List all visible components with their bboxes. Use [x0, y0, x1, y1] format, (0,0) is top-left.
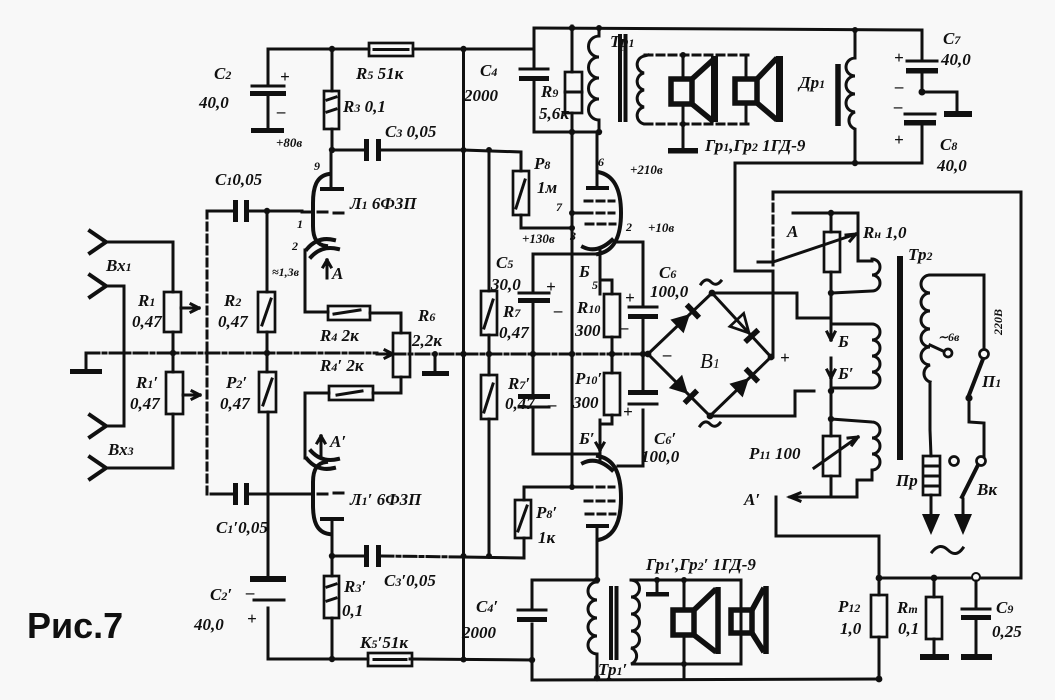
node Rn bottom	[828, 290, 834, 296]
node Tr1' primary bottom	[594, 675, 600, 681]
node R3' top	[329, 553, 335, 559]
svg-text:С4′: С4′	[476, 597, 498, 616]
wire grid feed y150	[464, 150, 522, 171]
diode V1 top-left	[670, 305, 699, 334]
svg-text:2: 2	[625, 220, 632, 234]
svg-text:С3 0,05: С3 0,05	[385, 122, 437, 141]
svg-text:40,0: 40,0	[936, 156, 967, 175]
svg-text:6: 6	[598, 155, 604, 169]
node bus-R13	[931, 575, 938, 582]
pentode U4 (output 6Ф3П lower)	[572, 410, 643, 580]
resistor R4	[305, 306, 370, 345]
svg-text:–: –	[894, 77, 904, 96]
input Bx3	[90, 415, 134, 479]
capacitor C2	[198, 49, 290, 133]
node R1 center	[170, 350, 176, 356]
svg-text:С1′0,05: С1′0,05	[216, 518, 268, 537]
pentode U3 (output 6Ф3П)	[556, 132, 643, 306]
node box bottom to bus2	[683, 664, 686, 679]
node C7-C8	[919, 89, 926, 96]
resistor R2	[218, 211, 275, 332]
svg-text:R3 0,1: R3 0,1	[342, 97, 386, 116]
svg-text:–: –	[553, 301, 563, 320]
transformer Tr1' secondary	[631, 580, 644, 664]
resistor R13	[896, 578, 942, 654]
svg-text:R5 51к: R5 51к	[355, 64, 404, 83]
svg-text:100,0: 100,0	[641, 447, 680, 466]
svg-text:300: 300	[574, 321, 601, 340]
svg-text:≈1,3в: ≈1,3в	[272, 265, 300, 279]
svg-text:Р2′: Р2′	[225, 373, 247, 392]
wire R4 to R6	[370, 313, 401, 333]
svg-text:40,0: 40,0	[193, 615, 224, 634]
svg-text:R3′: R3′	[343, 577, 366, 596]
svg-text:–: –	[893, 97, 903, 116]
node R12 bus2	[876, 676, 883, 683]
capacitor C1'	[211, 483, 268, 537]
svg-text:С10,05: С10,05	[215, 170, 263, 189]
svg-text:+: +	[280, 67, 290, 86]
choke Dr1	[797, 27, 858, 163]
wire bus1 bottom	[268, 659, 532, 660]
node bus-A'	[876, 575, 883, 582]
capacitor C3	[332, 122, 464, 161]
resistor R7'	[481, 374, 536, 556]
svg-text:А′: А′	[329, 432, 346, 451]
svg-text:–: –	[276, 102, 286, 121]
node R10 center	[609, 351, 615, 357]
svg-text:R7′: R7′	[507, 374, 530, 393]
svg-text:+: +	[894, 130, 904, 149]
svg-text:2000: 2000	[463, 86, 499, 105]
svg-text:∼6в: ∼6в	[938, 330, 960, 344]
svg-text:3: 3	[569, 229, 576, 243]
svg-text:+: +	[546, 277, 556, 296]
wire anode' rail y580	[532, 579, 597, 582]
svg-text:+80в: +80в	[276, 135, 302, 150]
svg-text:Б′: Б′	[578, 429, 595, 448]
wire B+ feed	[735, 163, 773, 357]
svg-text:А′: А′	[743, 490, 760, 509]
wire Bx1 to R1	[106, 242, 173, 292]
capacitor C9	[961, 581, 1022, 654]
node R7 top	[486, 147, 492, 153]
svg-text:Пр: Пр	[895, 471, 918, 490]
ground left hook	[85, 353, 88, 369]
speaker box top (dashed)	[645, 55, 748, 124]
svg-text:R4′ 2к: R4′ 2к	[319, 356, 364, 375]
wire top rail y49	[268, 48, 534, 51]
resistor R4'	[305, 356, 401, 458]
node A wire	[786, 210, 872, 261]
svg-text:С6′: С6′	[654, 429, 676, 448]
svg-text:С2′: С2′	[210, 585, 232, 604]
wire R2' down to C2'	[267, 412, 270, 578]
capacitor C4'	[461, 580, 547, 680]
node Tr1' primary top	[594, 577, 600, 583]
capacitor C4	[463, 28, 549, 132]
center dash-dot line	[86, 353, 648, 354]
label node A'	[317, 432, 346, 456]
potentiometer R6	[377, 306, 442, 377]
node grid pin7	[569, 210, 575, 216]
svg-text:Б′: Б′	[837, 364, 854, 383]
svg-text:+10в: +10в	[648, 220, 674, 235]
node bus1-x463	[461, 657, 467, 663]
svg-text:Тр1′: Тр1′	[598, 660, 627, 679]
transformer Tr2 left winding S2	[831, 324, 880, 388]
node y132 Tr1	[596, 129, 602, 135]
node grid pin7 lower	[569, 484, 575, 490]
svg-text:Л1′ 6Ф3П: Л1′ 6Ф3П	[349, 490, 422, 509]
svg-text:Б: Б	[837, 332, 849, 351]
svg-text:0,25: 0,25	[992, 622, 1022, 641]
svg-text:+130в: +130в	[522, 231, 555, 246]
speaker Gr2'	[731, 586, 766, 654]
svg-text:Р11 100: Р11 100	[748, 444, 801, 463]
svg-text:0,47: 0,47	[132, 312, 163, 331]
capacitor C2'	[193, 576, 286, 659]
svg-text:+: +	[623, 402, 633, 421]
bridge B1 frame	[648, 280, 790, 426]
wire feedback box left dashed	[772, 192, 775, 265]
diode V3 bottom-left	[669, 375, 697, 403]
potentiometer R11	[748, 436, 858, 501]
resistor R2'	[220, 372, 276, 413]
node C1-R2	[264, 208, 270, 214]
svg-text:–: –	[547, 395, 557, 414]
node R9 rail	[569, 25, 575, 31]
svg-text:Рис.7: Рис.7	[27, 605, 123, 646]
resistor R5	[355, 43, 413, 83]
svg-text:+: +	[780, 348, 790, 367]
wire R7 center	[488, 335, 491, 375]
potentiometer R1'	[130, 372, 200, 414]
node B arrow	[827, 322, 849, 351]
svg-text:К5′51к: К5′51к	[359, 633, 408, 652]
svg-text:+: +	[247, 609, 257, 628]
transformer Tr2 core	[897, 256, 903, 460]
node R8 bottom	[569, 225, 575, 231]
svg-text:Л1 6Ф3П: Л1 6Ф3П	[349, 194, 417, 213]
node y132 R9	[569, 129, 575, 135]
resistor R12	[837, 578, 887, 679]
node rail-bus	[460, 46, 466, 52]
wire R1 to center	[172, 332, 175, 372]
wire feedback box top	[773, 192, 1021, 578]
node bus-C9 open	[972, 573, 980, 581]
speaker Gr1	[671, 52, 718, 127]
ground right of C7	[922, 92, 957, 111]
ground under R13	[920, 654, 949, 660]
wire vertical bus x463	[462, 49, 465, 660]
capacitor C1	[207, 170, 302, 222]
node rail-R3	[329, 46, 335, 52]
svg-text:0,47: 0,47	[499, 323, 530, 342]
capacitor C7	[894, 29, 971, 96]
svg-text:+210в: +210в	[630, 162, 663, 177]
svg-text:1м: 1м	[537, 178, 558, 197]
svg-text:А: А	[331, 264, 343, 283]
wire grid bus x572	[571, 132, 574, 487]
wire Bx3b to R1'	[106, 414, 173, 468]
svg-text:0,47: 0,47	[130, 394, 161, 413]
capacitor C5'	[518, 354, 600, 454]
svg-text:–: –	[619, 318, 629, 337]
ground under Gr1	[682, 124, 685, 148]
node R3' bottom	[329, 656, 335, 662]
triode U2 (Л1' 6Ф3П)	[249, 451, 422, 556]
svg-text:40,0: 40,0	[198, 93, 229, 112]
svg-text:1: 1	[297, 217, 303, 231]
wire bus y578	[879, 577, 1021, 580]
svg-text:100,0: 100,0	[650, 282, 689, 301]
speaker Gr2	[735, 55, 783, 124]
node bridge bottom	[707, 413, 714, 420]
node C5 center	[530, 351, 536, 357]
svg-text:2,2к: 2,2к	[411, 331, 442, 350]
svg-text:5,6к: 5,6к	[539, 104, 569, 123]
node Dr1 bottom	[852, 160, 858, 166]
svg-text:5: 5	[592, 278, 598, 292]
wire R11 right side	[831, 470, 872, 497]
potentiometer Rn	[758, 213, 907, 333]
node R7' bottom	[486, 553, 492, 559]
resistor R10'	[572, 354, 620, 424]
svg-text:0,47: 0,47	[218, 312, 249, 331]
switch Vk	[950, 457, 998, 536]
node AC2 junction	[828, 388, 834, 394]
ground under C9	[961, 654, 992, 660]
resistor R9	[539, 26, 582, 132]
node R2 center	[264, 350, 270, 356]
resistor R10	[574, 280, 620, 354]
svg-text:0,1: 0,1	[898, 619, 919, 638]
svg-text:А: А	[786, 222, 798, 241]
wire AC2 bottom vertex	[710, 391, 814, 416]
svg-text:2000: 2000	[461, 623, 497, 642]
svg-text:Rн 1,0: Rн 1,0	[862, 223, 907, 242]
node C3 junction	[329, 147, 335, 153]
svg-text:0,1: 0,1	[342, 601, 363, 620]
ground stub right of R6	[422, 351, 449, 376]
svg-text:+: +	[625, 288, 635, 307]
triode U1 (Л1 6Ф3П)	[291, 150, 417, 312]
svg-text:Вк: Вк	[976, 480, 997, 499]
node C6 center	[640, 351, 646, 357]
node bridge plus	[768, 354, 775, 361]
diode V2 top-right	[730, 313, 758, 342]
potentiometer R1	[132, 291, 199, 332]
speaker Gr1'	[673, 577, 718, 667]
svg-text:7: 7	[556, 200, 563, 214]
transformer Tr1 primary	[589, 25, 635, 132]
node grid bus center	[569, 351, 575, 357]
resistor R3'	[324, 556, 366, 659]
wire bus2 bottom y680	[532, 679, 879, 680]
svg-text:1,0: 1,0	[840, 619, 862, 638]
capacitor C5	[490, 253, 600, 354]
svg-text:1к: 1к	[538, 528, 556, 547]
svg-text:–: –	[662, 345, 672, 364]
node bus y150	[461, 147, 467, 153]
svg-text:9: 9	[314, 159, 320, 173]
capacitor C3'	[332, 545, 524, 590]
svg-text:40,0: 40,0	[940, 50, 971, 69]
svg-text:300: 300	[572, 393, 599, 412]
wire AC1 top vertex	[712, 293, 831, 318]
svg-text:2: 2	[291, 239, 298, 253]
label cathode +1,3в and node A	[272, 260, 343, 283]
resistor R3	[324, 49, 386, 150]
svg-text:30,0: 30,0	[490, 275, 521, 294]
resistor R8	[513, 154, 572, 228]
transformer Tr2 right winding	[921, 275, 989, 456]
wire y163 rail	[735, 162, 922, 165]
svg-text:+: +	[894, 48, 904, 67]
node bus y556	[461, 553, 467, 559]
label mains ~	[932, 546, 963, 553]
capacitor C6	[619, 263, 689, 354]
node B' arrow	[827, 358, 854, 436]
switch P1	[965, 359, 1001, 456]
wire A' down to bus	[776, 497, 879, 578]
resistor R8'	[515, 487, 572, 558]
wire R2 center	[266, 332, 269, 372]
wire anode rail y132	[534, 131, 599, 134]
node R7 center	[486, 351, 492, 357]
transformer Tr2 left winding S3	[831, 419, 880, 470]
wire top rail y28	[534, 28, 922, 30]
transformer Tr1 core	[620, 36, 626, 120]
svg-text:R1′: R1′	[135, 373, 158, 392]
node bridge minus	[645, 351, 652, 358]
diode V4 bottom-right	[729, 369, 758, 398]
svg-text:С3′0,05: С3′0,05	[384, 571, 436, 590]
transformer Tr2 left winding S1	[831, 259, 880, 293]
resistor R7	[481, 150, 530, 342]
svg-text:Р8′: Р8′	[535, 503, 557, 522]
capacitor C6'	[623, 354, 680, 466]
input Bx1	[90, 231, 132, 297]
shield dashed line	[206, 211, 209, 494]
node R11 top junction	[828, 416, 834, 422]
ground inside box bottom	[656, 580, 659, 592]
resistor R5'	[359, 633, 412, 666]
svg-text:–: –	[245, 583, 255, 602]
transformer Tr1' core	[611, 588, 617, 658]
node C4' bus1	[529, 657, 535, 663]
svg-text:220В: 220В	[991, 309, 1005, 336]
speaker box bottom	[635, 580, 741, 664]
svg-text:0,47: 0,47	[220, 394, 251, 413]
svg-text:Б: Б	[578, 262, 590, 281]
node bridge top	[709, 290, 716, 297]
transformer Tr1' primary	[588, 582, 627, 679]
transformer Tr1 secondary	[637, 55, 648, 124]
node bus center	[460, 351, 466, 357]
wire Bx1b down	[106, 286, 124, 426]
capacitor C8	[893, 97, 967, 175]
svg-text:R4 2к: R4 2к	[319, 326, 359, 345]
fuse Pr	[895, 456, 940, 535]
